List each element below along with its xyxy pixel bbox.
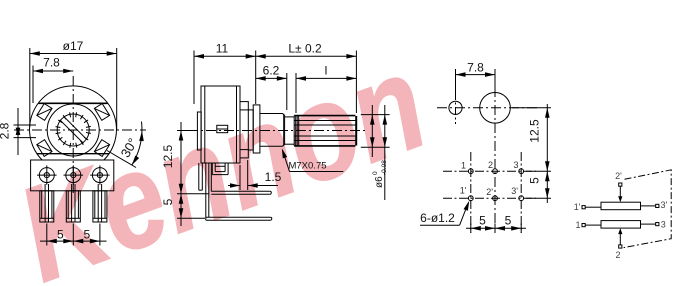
- front step upper: [240, 102, 248, 110]
- svg-text:2': 2': [615, 171, 622, 181]
- svg-text:11: 11: [216, 42, 229, 56]
- pin row axis 1: [443, 170, 536, 172]
- svg-text:3': 3': [661, 200, 668, 210]
- svg-text:1.5: 1.5: [265, 170, 282, 184]
- bent pin lower run: [206, 163, 272, 220]
- wire 1 to R2: [585, 224, 601, 226]
- svg-text:ø17: ø17: [63, 39, 84, 53]
- svg-text:1': 1': [574, 202, 581, 212]
- svg-text:0: 0: [372, 171, 379, 175]
- svg-text:3: 3: [513, 160, 518, 170]
- tab upper-left: [37, 104, 52, 121]
- rear cover plate: [197, 112, 201, 150]
- drill hole 3: [519, 169, 524, 174]
- svg-text:3: 3: [661, 219, 666, 229]
- wire 1p to R1: [585, 206, 601, 208]
- cover band top chord: [39, 102, 108, 104]
- resistor element R2 bottom: [601, 221, 641, 229]
- cover opening circle: [47, 104, 99, 156]
- dimension l shaft: [296, 73, 356, 113]
- drill hole 2p: [493, 196, 498, 201]
- anti-rotation pin hole: [449, 101, 462, 114]
- resistor element R1 top: [601, 202, 641, 210]
- tab lower-left: [37, 140, 52, 157]
- svg-text:2.8: 2.8: [0, 122, 12, 139]
- lug leg 2: [66, 184, 80, 222]
- bushing hole: [480, 93, 511, 124]
- svg-text:-0.08: -0.08: [381, 160, 388, 175]
- svg-text:5: 5: [161, 198, 175, 205]
- pin 2p square: [619, 183, 622, 186]
- bracket plate: [248, 110, 253, 150]
- label o6 tol: [372, 160, 388, 188]
- leader 6-o1.2: [420, 200, 471, 225]
- pin hole vertical axis: [455, 92, 457, 124]
- cover band bottom chord: [37, 153, 109, 155]
- dimension 7.8 front: [33, 66, 73, 104]
- mounting flange: [253, 105, 260, 153]
- threaded bushing M7: [260, 114, 285, 147]
- terminal base block: [31, 160, 114, 191]
- body inner edge: [204, 86, 206, 163]
- svg-text:1: 1: [461, 160, 466, 170]
- body bottom edge: [201, 162, 240, 164]
- lug leg 3: [93, 184, 107, 222]
- drill view horizontal axis: [437, 107, 540, 109]
- dimension 1.5: [228, 160, 278, 190]
- bushing hole vertical axis: [494, 87, 496, 233]
- pin 3p square: [656, 204, 659, 207]
- svg-text:6.2: 6.2: [263, 64, 280, 78]
- knurled shaft side: [294, 116, 356, 146]
- body outline: [201, 86, 240, 163]
- vertical center line front: [72, 76, 74, 193]
- svg-text:1': 1': [460, 185, 467, 195]
- svg-text:2': 2': [486, 187, 493, 197]
- dimension 6.2: [256, 73, 287, 110]
- terminal eyelet 3: [90, 165, 110, 184]
- svg-text:1: 1: [575, 220, 580, 230]
- svg-text:5: 5: [528, 177, 542, 184]
- svg-text:l: l: [325, 64, 328, 78]
- svg-text:M7X0.75: M7X0.75: [288, 161, 326, 172]
- svg-text:7.8: 7.8: [467, 61, 484, 75]
- svg-text:7.8: 7.8: [43, 56, 60, 70]
- dimension 2.8: [14, 108, 37, 155]
- pin 1 square: [582, 224, 585, 227]
- svg-text:5: 5: [84, 228, 91, 242]
- svg-text:2: 2: [615, 250, 620, 260]
- wire R1 to 3p: [641, 205, 656, 207]
- dimension o17: [30, 48, 117, 130]
- knurl ticks: [56, 112, 91, 147]
- wire R2 to 3: [641, 223, 656, 225]
- rear bracket tab: [199, 163, 203, 190]
- lug leg 1: [40, 184, 54, 222]
- dimension 12.5 side: [177, 122, 209, 226]
- svg-text:6-ø1.2: 6-ø1.2: [420, 211, 455, 225]
- dimension o6 shaft: [361, 105, 390, 200]
- bent pin upper run: [209, 163, 271, 217]
- drill hole 2: [493, 169, 498, 174]
- wiper wire 2p: [618, 186, 622, 202]
- svg-text:12.5: 12.5: [528, 119, 542, 143]
- pin row axis 2: [443, 197, 536, 199]
- wiper wire 2: [618, 228, 622, 245]
- svg-text:L± 0.2: L± 0.2: [288, 42, 322, 56]
- drill hole 1p: [468, 196, 473, 201]
- dimension 5 5 front legs: [40, 224, 107, 246]
- pin column axis 1: [470, 152, 472, 233]
- dimension 5 5 drill: [466, 224, 526, 233]
- tab lower-right: [94, 140, 109, 157]
- svg-text:5: 5: [479, 214, 486, 228]
- svg-text:12.5: 12.5: [161, 144, 175, 168]
- shaft slot seen in body: [217, 125, 228, 132]
- terminal eyelet 2: [64, 165, 84, 184]
- bottom locating lug U: [212, 163, 228, 175]
- dimension 11: [194, 51, 256, 105]
- horizontal center line front: [14, 129, 146, 131]
- svg-text:Kennon: Kennon: [1, 27, 444, 286]
- gang link dash-dot: [624, 170, 672, 248]
- drill hole 1: [468, 169, 473, 174]
- svg-text:3': 3': [511, 186, 518, 196]
- dimension 7.8 drill: [456, 69, 496, 98]
- pin column axis 3: [520, 152, 522, 233]
- tab upper-right: [94, 104, 109, 121]
- dimension 30 degrees arc: [107, 122, 144, 168]
- dimension L+-0.2: [256, 51, 357, 114]
- shaft neck: [285, 117, 295, 144]
- svg-text:2: 2: [488, 160, 493, 170]
- leader M7X0.75: [280, 147, 344, 171]
- pin 3 square: [656, 223, 659, 226]
- shaft slot: [60, 120, 84, 144]
- svg-text:5: 5: [505, 214, 512, 228]
- svg-text:5: 5: [57, 228, 64, 242]
- watermark Kennon: [1, 27, 444, 286]
- body outer circle (o17) clipped by base: [29, 86, 116, 160]
- dimension 12.5 drill: [512, 104, 551, 203]
- pin 2 square: [619, 245, 622, 248]
- terminal eyelet 1: [37, 165, 57, 184]
- drill hole 3p: [519, 196, 524, 201]
- pin 1p square: [582, 206, 585, 209]
- side center axis: [188, 130, 368, 132]
- knurled shaft circle: [57, 114, 89, 146]
- front step lower: [240, 150, 248, 158]
- svg-text:ø6: ø6: [374, 176, 385, 188]
